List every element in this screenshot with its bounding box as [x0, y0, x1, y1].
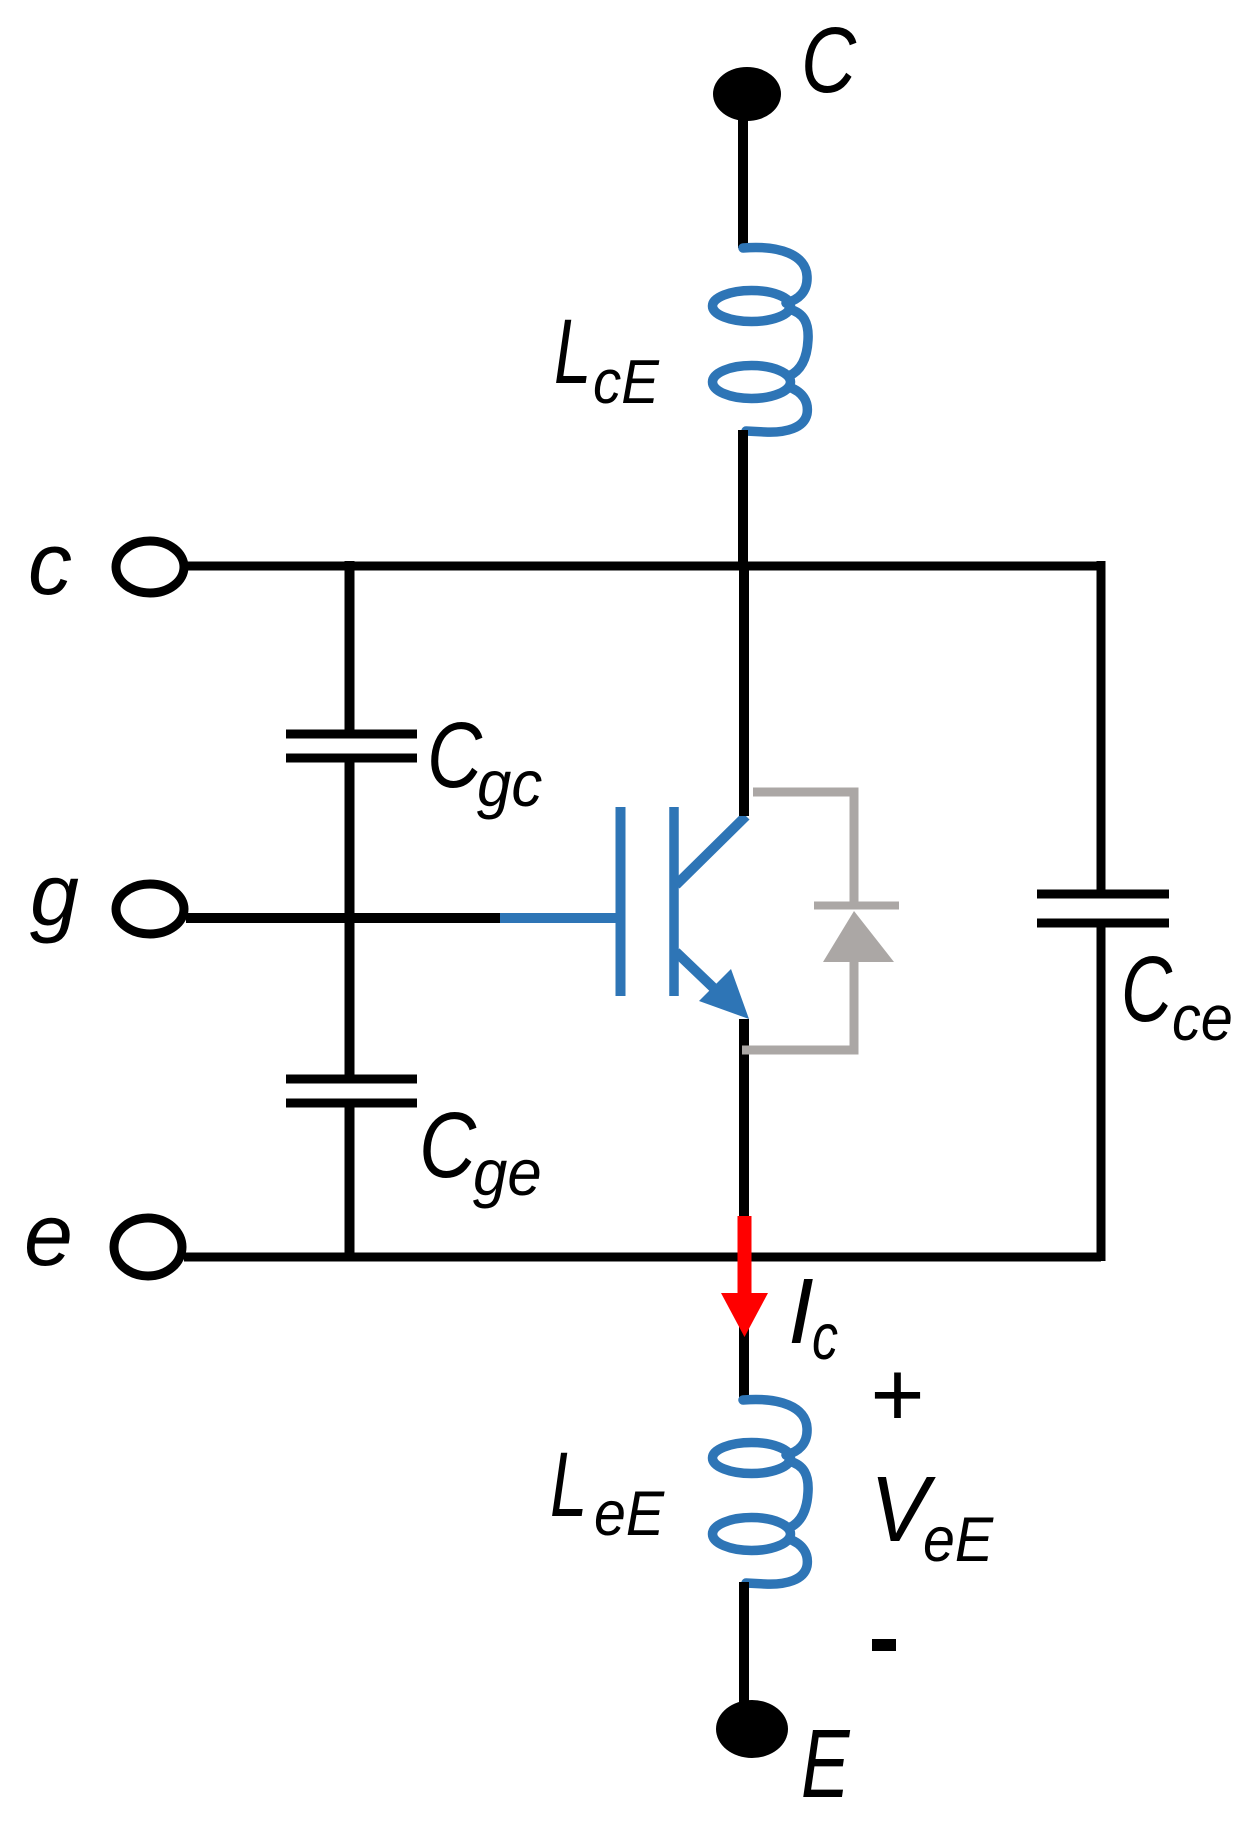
svg-text:gc: gc — [477, 749, 542, 821]
svg-text:ge: ge — [473, 1138, 542, 1210]
wire c-bus to Cgc — [345, 561, 355, 730]
svg-text:C: C — [1121, 937, 1173, 1042]
svg-text:eE: eE — [923, 1503, 994, 1574]
wire c bus — [186, 562, 1101, 571]
terminal g — [116, 884, 184, 934]
svg-text:ce: ce — [1172, 982, 1233, 1053]
transistor Q1 IGBT emitter diagonal with arrow — [676, 952, 749, 1019]
wire e-bus to LeE — [739, 1261, 749, 1400]
terminal c — [116, 541, 184, 593]
label minus — [872, 1639, 896, 1651]
wire C to LcE — [738, 105, 748, 248]
svg-text:C: C — [427, 704, 483, 808]
svg-text:e: e — [24, 1185, 73, 1284]
capacitor Cce — [1037, 894, 1169, 923]
wire e bus — [184, 1253, 1101, 1262]
wire collector — [739, 566, 749, 816]
svg-text:cE: cE — [593, 347, 660, 417]
inductor LeE — [713, 1399, 809, 1584]
label Ic — [788, 1259, 838, 1373]
wire LeE to E — [739, 1582, 749, 1705]
terminal C (collector dot) — [713, 67, 781, 121]
label Cce — [1121, 937, 1233, 1054]
wire Cgc to g-wire junction — [345, 762, 355, 1075]
svg-text:c: c — [812, 1302, 838, 1374]
label VeE — [870, 1458, 994, 1575]
svg-text:E: E — [801, 1710, 850, 1819]
wire LcE to c-bus — [738, 430, 748, 566]
transistor Q1 IGBT body bar — [669, 807, 679, 996]
capacitor Cge — [286, 1079, 417, 1103]
svg-text:L: L — [554, 301, 591, 404]
svg-text:+: + — [869, 1342, 923, 1446]
wire right vertical top — [1097, 561, 1106, 890]
terminal E (emitter dot) — [716, 1700, 788, 1758]
wire emitter — [739, 1019, 749, 1261]
svg-text:c: c — [28, 514, 72, 613]
inductor LcE — [713, 247, 809, 432]
label LcE — [554, 301, 660, 417]
transistor Q1 IGBT collector diagonal — [676, 816, 746, 885]
svg-text:C: C — [419, 1094, 477, 1197]
wire right vertical bottom — [1097, 927, 1106, 1261]
wire Cge to e-bus — [345, 1107, 355, 1257]
terminal e — [114, 1218, 182, 1276]
svg-text:L: L — [550, 1434, 587, 1537]
label Cgc — [427, 704, 542, 820]
diode D1 (gray freewheeling) — [742, 792, 899, 1050]
label Cge — [419, 1094, 542, 1209]
transistor Q1 IGBT gate bar — [616, 807, 626, 996]
capacitor Cgc — [286, 734, 417, 758]
label LeE — [550, 1434, 665, 1549]
wire g lead blue — [500, 913, 618, 923]
svg-text:g: g — [30, 845, 79, 944]
svg-text:I: I — [788, 1259, 814, 1363]
svg-text:C: C — [801, 9, 857, 113]
wire g lead black — [186, 913, 502, 923]
svg-text:eE: eE — [594, 1477, 665, 1548]
current arrow Ic (red) — [721, 1216, 768, 1337]
